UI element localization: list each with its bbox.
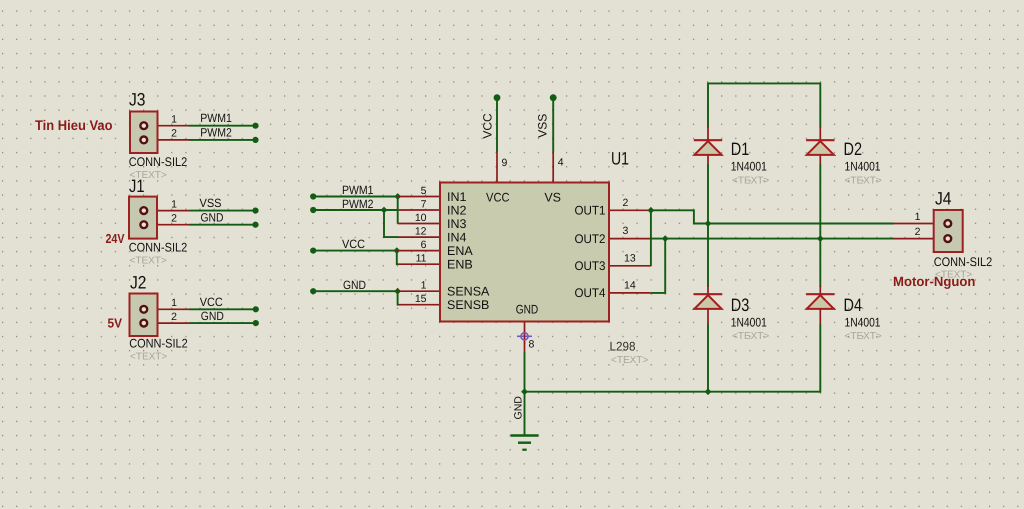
svg-text:D1: D1	[731, 139, 750, 159]
svg-text:PWM2: PWM2	[342, 197, 374, 211]
junction dot IN1	[394, 193, 401, 200]
svg-text:Motor-Nguon: Motor-Nguon	[893, 274, 975, 289]
wire ENA to ENB vertical	[397, 251, 399, 265]
svg-text:IN4: IN4	[447, 230, 467, 244]
svg-text:4: 4	[558, 157, 564, 169]
pin 7 IN2 stub	[399, 209, 442, 211]
wire OUT2 to OUT4 vertical	[651, 239, 665, 293]
svg-text:SENSA: SENSA	[447, 285, 490, 299]
svg-text:6: 6	[421, 239, 427, 251]
wire J2 pin2 GND	[189, 322, 256, 324]
svg-text:D2: D2	[844, 139, 863, 159]
svg-text:13: 13	[624, 252, 636, 264]
svg-text:CONN-SIL2: CONN-SIL2	[129, 155, 188, 169]
svg-text:J1: J1	[129, 176, 145, 196]
svg-text:Tin Hieu Vao: Tin Hieu Vao	[35, 117, 113, 133]
svg-text:1: 1	[171, 297, 177, 309]
svg-text:12: 12	[415, 226, 427, 238]
pin 14 OUT4 stub	[608, 292, 651, 294]
svg-text:OUT1: OUT1	[575, 204, 606, 218]
wire GND pin8 down	[524, 352, 526, 393]
svg-text:J4: J4	[935, 189, 952, 209]
J1 body	[129, 197, 157, 239]
connector J3	[129, 90, 189, 182]
wire end dot J2 GND	[253, 320, 259, 326]
wire end dot PWM1	[252, 123, 258, 129]
J1 pin2 stub	[144, 224, 189, 226]
svg-text:IN2: IN2	[447, 203, 467, 217]
svg-text:ENB: ENB	[447, 258, 473, 272]
wire end dot J2 VCC	[253, 306, 259, 312]
svg-text:15: 15	[415, 293, 427, 305]
wire net VCC into ENA	[313, 250, 398, 252]
wire VS top vertical	[552, 98, 554, 152]
wire D2 to D4 chain	[819, 164, 821, 287]
J1 pin1 stub	[144, 210, 189, 212]
J4 pin2 circle	[944, 235, 951, 242]
svg-text:11: 11	[416, 253, 427, 265]
wire J1 pin2 GND	[189, 224, 256, 226]
junction dot GND rail left	[521, 388, 528, 395]
wire D3 to GND rail	[707, 324, 709, 392]
pin 8 crosshair marker	[517, 329, 532, 344]
svg-text:8: 8	[529, 339, 535, 351]
pin 1 SENSA stub	[398, 290, 441, 292]
wire D4 to GND rail	[819, 324, 821, 393]
svg-text:7: 7	[421, 199, 427, 211]
J2 pin1 stub	[144, 308, 189, 310]
svg-text:J3: J3	[129, 90, 146, 110]
wire net GND into SENSA	[313, 290, 398, 292]
junction dot OUT1	[648, 207, 655, 214]
J3 pin2 stub	[144, 139, 189, 141]
U1 pin numbers	[415, 157, 636, 351]
connector J1	[129, 176, 189, 267]
svg-text:VCC: VCC	[481, 113, 495, 139]
svg-text:GND: GND	[516, 303, 539, 317]
J2 pin1 circle	[140, 306, 147, 313]
J3 body	[130, 112, 158, 154]
svg-text:GND: GND	[201, 210, 224, 224]
J3 pin2 circle	[140, 137, 147, 144]
pin 13 OUT3 stub	[608, 265, 651, 267]
wire end dot PWM2 left	[310, 207, 316, 213]
J1 pin1 circle	[140, 207, 147, 214]
J3 pin1 stub	[144, 125, 189, 127]
wire J3 pin2 to PWM2	[189, 139, 256, 141]
wire end dot VCC top	[494, 94, 501, 101]
op-amp U1 chip pins left stubs	[397, 152, 651, 352]
svg-text:CONN-SIL2: CONN-SIL2	[129, 241, 188, 255]
wire end dot VCC left	[310, 248, 316, 254]
wire end dot VSS	[252, 208, 258, 214]
wire J2 pin1 VCC	[189, 308, 256, 310]
junction dot GND rail at D3	[705, 388, 712, 395]
connector J2	[129, 273, 189, 363]
J4 body	[934, 210, 963, 252]
svg-text:24V: 24V	[106, 231, 125, 246]
J3 pin1 circle	[140, 122, 147, 129]
svg-text:2: 2	[171, 213, 177, 225]
wire end dot J1 GND	[252, 222, 258, 228]
pin 9 VCC stub	[496, 152, 498, 184]
svg-text:D3: D3	[731, 295, 750, 315]
svg-text:2: 2	[623, 197, 629, 209]
junction dot OUT1 at D1 chain	[705, 220, 712, 227]
svg-text:U1: U1	[611, 149, 629, 169]
svg-text:1: 1	[915, 211, 921, 223]
svg-text:1: 1	[171, 114, 177, 126]
svg-text:1N4001: 1N4001	[731, 315, 767, 329]
wire J1 pin1 VSS	[189, 210, 256, 212]
ground	[511, 436, 539, 450]
svg-text:1: 1	[421, 280, 427, 292]
wire net PWM2 into IN2	[313, 209, 398, 211]
wire D1 to D3 chain	[707, 164, 709, 287]
diode D1	[694, 127, 722, 165]
wire end dot PWM2	[252, 137, 258, 143]
wire J3 pin1 to PWM1	[189, 125, 256, 127]
svg-text:2: 2	[171, 128, 177, 140]
svg-text:<TEXT>: <TEXT>	[130, 352, 167, 363]
wire OUT1 to OUT3 vertical	[650, 210, 652, 265]
pin 11 ENB stub	[399, 263, 442, 265]
svg-text:<TEXT>: <TEXT>	[130, 256, 167, 267]
diode D3	[694, 286, 722, 324]
svg-text:VS: VS	[544, 190, 561, 204]
wire IN1 to IN3 vertical	[397, 197, 399, 224]
svg-text:<TEXT>: <TEXT>	[732, 331, 769, 342]
svg-text:CONN-SIL2: CONN-SIL2	[934, 255, 993, 269]
svg-text:3: 3	[623, 225, 629, 237]
junction dot OUT2	[662, 235, 669, 242]
wire to ground symbol	[524, 392, 526, 435]
U1 body	[440, 183, 609, 322]
J4 pin2 stub	[894, 238, 948, 240]
wire VCC top vertical	[496, 98, 498, 152]
svg-text:OUT2: OUT2	[575, 232, 606, 246]
svg-text:IN3: IN3	[447, 217, 467, 231]
pin 3 OUT2 stub	[608, 238, 651, 240]
pin 4 VS stub	[552, 152, 554, 184]
svg-text:5: 5	[421, 185, 427, 197]
connector J4	[894, 189, 992, 281]
diode D4	[806, 286, 834, 324]
wire top bridge D1-D2	[708, 83, 820, 127]
wire SENSA to SENSB vertical	[397, 291, 400, 305]
wire end dot PWM1 left	[310, 193, 316, 199]
wire OUT2 to J4 pin2	[651, 238, 894, 240]
svg-text:OUT3: OUT3	[575, 259, 606, 273]
svg-text:VCC: VCC	[200, 295, 223, 309]
pin 8 GND stub	[524, 320, 526, 352]
svg-text:<TEXT>: <TEXT>	[845, 176, 882, 187]
J4 pin1 circle	[944, 220, 951, 227]
svg-text:J2: J2	[130, 273, 147, 293]
wire OUT1 route to J4 pin1	[651, 210, 894, 223]
svg-text:GND: GND	[343, 278, 366, 292]
svg-text:CONN-SIL2: CONN-SIL2	[129, 337, 188, 351]
svg-text:<TEXT>: <TEXT>	[611, 355, 648, 366]
svg-text:IN1: IN1	[447, 190, 467, 204]
J2 body	[130, 294, 158, 337]
svg-text:PWM1: PWM1	[200, 111, 232, 125]
wire bottom GND rail	[525, 391, 821, 393]
svg-text:PWM2: PWM2	[200, 125, 232, 139]
J4 pin1 stub	[894, 223, 948, 225]
svg-text:VCC: VCC	[486, 190, 510, 204]
J1 pin2 circle	[140, 221, 147, 228]
pin 5 IN1 stub	[398, 196, 441, 198]
wire end dot VS top	[550, 94, 557, 101]
svg-text:1N4001: 1N4001	[731, 159, 767, 173]
svg-text:<TEXT>: <TEXT>	[845, 331, 882, 342]
svg-text:OUT4: OUT4	[575, 286, 606, 300]
svg-text:1N4001: 1N4001	[845, 159, 881, 173]
svg-text:2: 2	[915, 226, 921, 238]
wire net PWM1 into IN1	[313, 196, 398, 198]
wire IN2 to IN4 vertical	[384, 210, 399, 237]
junction dot IN2	[381, 207, 388, 214]
diode D2	[806, 127, 834, 165]
junction dot SENSA	[394, 288, 401, 295]
svg-text:2: 2	[171, 311, 177, 323]
J2 pin2 circle	[140, 320, 147, 327]
svg-text:5V: 5V	[108, 315, 123, 330]
svg-text:VCC: VCC	[342, 237, 365, 251]
pin 15 SENSB stub	[399, 304, 442, 306]
svg-text:PWM1: PWM1	[342, 183, 374, 197]
svg-text:D4: D4	[844, 295, 863, 315]
wire end dot GND left	[310, 288, 316, 294]
svg-text:1: 1	[171, 198, 177, 210]
junction dot OUT2 at D2 chain	[817, 235, 824, 242]
pin 12 IN4 stub	[399, 236, 442, 238]
svg-text:10: 10	[415, 212, 427, 224]
pin 10 IN3 stub	[398, 223, 441, 225]
svg-text:VSS: VSS	[200, 196, 222, 210]
svg-text:L298: L298	[610, 340, 636, 354]
pin 6 ENA stub	[397, 250, 441, 252]
svg-text:GND: GND	[201, 309, 224, 323]
svg-text:<TEXT>: <TEXT>	[732, 176, 769, 187]
junction dot ENA	[393, 247, 400, 254]
svg-text:14: 14	[624, 279, 636, 291]
svg-text:9: 9	[502, 157, 508, 169]
svg-text:ENA: ENA	[447, 244, 473, 258]
svg-text:SENSB: SENSB	[447, 298, 489, 312]
pin 2 OUT1 stub	[608, 209, 651, 211]
svg-text:GND: GND	[513, 396, 525, 420]
svg-text:1N4001: 1N4001	[845, 315, 881, 329]
svg-text:VSS: VSS	[536, 114, 550, 138]
J2 pin2 stub	[144, 322, 189, 324]
U1 pin names left	[447, 190, 606, 317]
